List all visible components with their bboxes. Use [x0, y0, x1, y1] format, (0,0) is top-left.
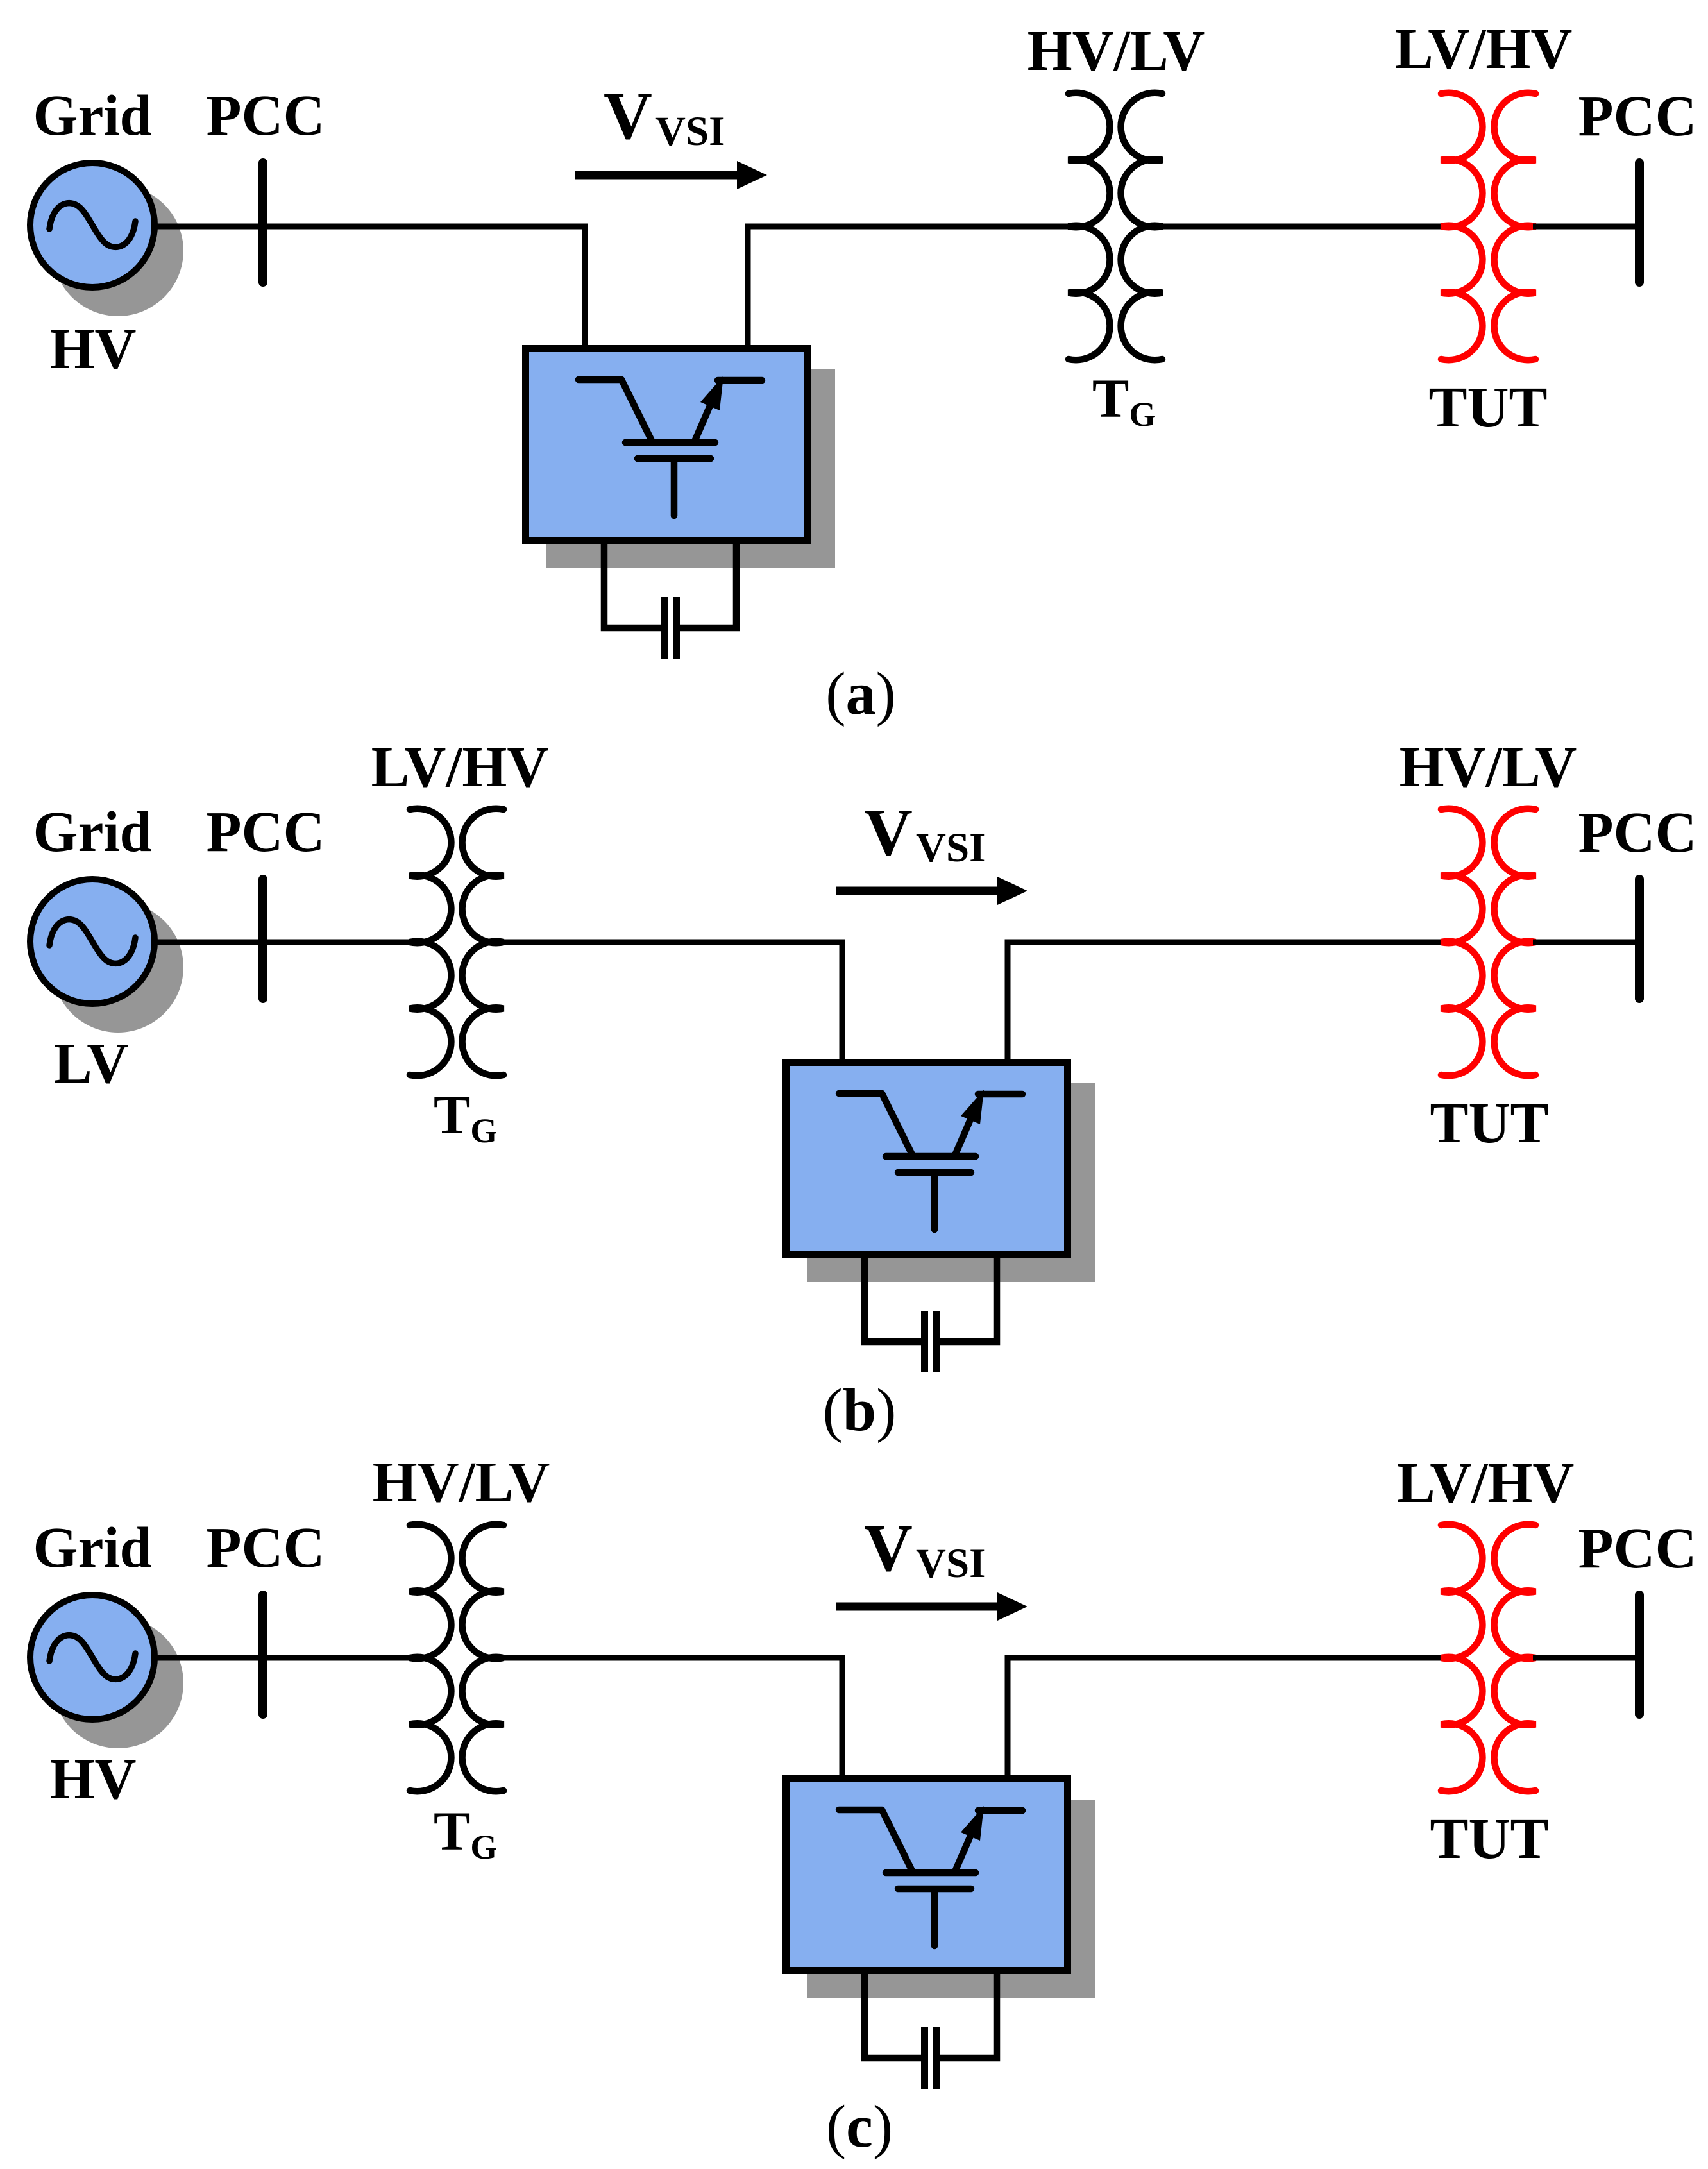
svg-text:V: V: [604, 78, 652, 153]
svg-text:LV/HV: LV/HV: [371, 736, 549, 799]
svg-text:TG: TG: [434, 1800, 497, 1866]
wire TG to VSI left branch (b): [501, 942, 842, 1063]
wire TG to TUT (a): [1160, 224, 1444, 230]
IGBT symbol (b) collector lead and bar: [839, 1093, 912, 1154]
transformer TUT LV/HV (c) secondary winding: [1494, 1524, 1535, 1792]
PCC busbar right (b): [1635, 879, 1644, 999]
wire TG to VSI left branch (c): [501, 1658, 842, 1779]
voltage source Grid (c) sine symbol: [49, 1635, 135, 1680]
svg-text:TG: TG: [434, 1084, 497, 1150]
IGBT symbol (b) emitter top lead: [978, 1091, 1022, 1098]
svg-text:(c): (c): [826, 2093, 893, 2160]
PCC busbar right (c): [1635, 1595, 1644, 1714]
IGBT symbol (c) gate bar: [898, 1886, 971, 1893]
transformer TG LV/HV (b) primary winding: [410, 809, 451, 1076]
transformer TG LV/HV (b) secondary winding: [462, 809, 503, 1076]
svg-text:PCC: PCC: [207, 84, 325, 148]
svg-text:LV/HV: LV/HV: [1397, 1451, 1575, 1515]
IGBT symbol (b) emitter arrow: [955, 1117, 972, 1155]
DC-link wire right (c): [940, 1974, 997, 2058]
IGBT symbol (b) gate bar: [898, 1169, 971, 1176]
PCC busbar left (b): [258, 879, 267, 999]
voltage source Grid (b) sine symbol: [49, 920, 135, 964]
svg-text:TUT: TUT: [1430, 1807, 1548, 1871]
PCC busbar left (a): [258, 163, 267, 282]
transformer TUT HV/LV (b) secondary winding: [1494, 809, 1535, 1076]
PCC busbar left (c): [258, 1595, 267, 1714]
svg-text:PCC: PCC: [1578, 85, 1697, 148]
VSI converter block (b) body: [786, 1063, 1068, 1254]
IGBT symbol (b) gate lead: [931, 1176, 938, 1229]
wire TUT to PCC (c): [1533, 1655, 1637, 1661]
svg-text:TUT: TUT: [1430, 1092, 1548, 1155]
wire grid to VSI left branch (a): [155, 226, 585, 349]
svg-text:HV/LV: HV/LV: [1027, 19, 1205, 83]
transformer TG HV/LV (c) primary winding: [410, 1524, 451, 1792]
IGBT symbol (c) emitter arrow: [955, 1833, 972, 1871]
transformer TG HV/LV (c) secondary winding: [462, 1524, 503, 1792]
wire VSI right branch to TUT (b): [1008, 942, 1444, 1063]
svg-text:V: V: [864, 795, 913, 870]
DC-link capacitor (c): [921, 2027, 928, 2089]
transformer TUT LV/HV (c) primary winding: [1441, 1524, 1482, 1792]
wire grid to transformer TG (b): [155, 940, 412, 945]
svg-text:VSI: VSI: [655, 108, 725, 155]
transformer TG HV/LV (a) secondary winding: [1121, 93, 1162, 360]
svg-text:HV/LV: HV/LV: [373, 1451, 550, 1514]
transformer TUT LV/HV (a) secondary winding: [1494, 93, 1535, 360]
voltage source Grid (b) shadow: [53, 902, 183, 1033]
voltage source Grid (a) shadow: [53, 185, 183, 316]
voltage source Grid (a) circle: [30, 163, 155, 287]
V_VSI direction arrow (b): [836, 887, 1001, 895]
svg-text:HV: HV: [50, 1748, 137, 1811]
VSI converter block (c) shadow: [807, 1800, 1095, 1998]
svg-text:PCC: PCC: [207, 800, 325, 864]
svg-text:(b): (b): [823, 1377, 897, 1444]
svg-text:HV/LV: HV/LV: [1399, 736, 1577, 799]
VSI converter block (c) body: [786, 1779, 1068, 1971]
svg-text:PCC: PCC: [1578, 801, 1697, 865]
transformer TUT HV/LV (b) primary winding: [1441, 809, 1482, 1076]
DC-link wire right (a): [679, 544, 737, 628]
svg-text:(a): (a): [825, 661, 896, 727]
PCC busbar right (a): [1635, 163, 1644, 282]
IGBT symbol (c) emitter top lead: [978, 1807, 1022, 1814]
wire VSI right branch to transformer TG (a): [748, 226, 1071, 349]
IGBT symbol (c) gate lead: [931, 1893, 938, 1946]
wire VSI right branch to TUT (c): [1008, 1658, 1444, 1779]
DC-link wire left (c): [865, 1974, 922, 2058]
V_VSI direction arrow (c): [836, 1603, 1001, 1611]
voltage source Grid (c) shadow: [53, 1617, 183, 1748]
svg-text:Grid: Grid: [33, 1516, 151, 1580]
IGBT symbol (c) collector lead and bar: [839, 1810, 912, 1871]
svg-text:PCC: PCC: [207, 1516, 325, 1580]
DC-link wire right (b): [940, 1258, 997, 1342]
transformer TG HV/LV (a) primary winding: [1069, 93, 1110, 360]
wire TUT to PCC (a): [1533, 224, 1637, 230]
transformer TUT LV/HV (a) primary winding: [1441, 93, 1482, 360]
DC-link wire left (a): [604, 544, 662, 628]
voltage source Grid (a) sine symbol: [49, 203, 135, 248]
IGBT symbol (a) gate bar: [638, 455, 711, 462]
VSI converter block (b) shadow: [807, 1083, 1095, 1282]
svg-text:TG: TG: [1092, 367, 1156, 434]
DC-link capacitor (b): [921, 1311, 928, 1372]
svg-text:LV/HV: LV/HV: [1395, 17, 1573, 81]
IGBT symbol (a) emitter arrow: [695, 403, 711, 441]
IGBT symbol (a) collector lead and bar: [579, 380, 652, 441]
svg-text:TUT: TUT: [1428, 376, 1547, 439]
wire grid to transformer TG (c): [155, 1655, 412, 1661]
svg-text:V: V: [864, 1510, 913, 1585]
wire TUT to PCC (b): [1533, 940, 1637, 945]
svg-text:VSI: VSI: [916, 825, 985, 871]
DC-link wire left (b): [865, 1258, 922, 1342]
VSI converter block (a) shadow: [546, 369, 835, 568]
DC-link capacitor (a): [661, 597, 668, 659]
VSI converter block (a) body: [526, 349, 807, 541]
V_VSI direction arrow (a): [575, 171, 740, 180]
voltage source Grid (b) circle: [30, 879, 155, 1004]
svg-text:Grid: Grid: [33, 800, 151, 864]
IGBT symbol (a) gate lead: [671, 462, 678, 516]
svg-text:PCC: PCC: [1578, 1517, 1697, 1580]
svg-text:VSI: VSI: [916, 1540, 985, 1587]
svg-text:HV: HV: [50, 317, 137, 381]
svg-text:Grid: Grid: [33, 84, 151, 148]
IGBT symbol (a) emitter top lead: [718, 377, 762, 384]
svg-text:LV: LV: [54, 1032, 129, 1095]
voltage source Grid (c) circle: [30, 1595, 155, 1719]
